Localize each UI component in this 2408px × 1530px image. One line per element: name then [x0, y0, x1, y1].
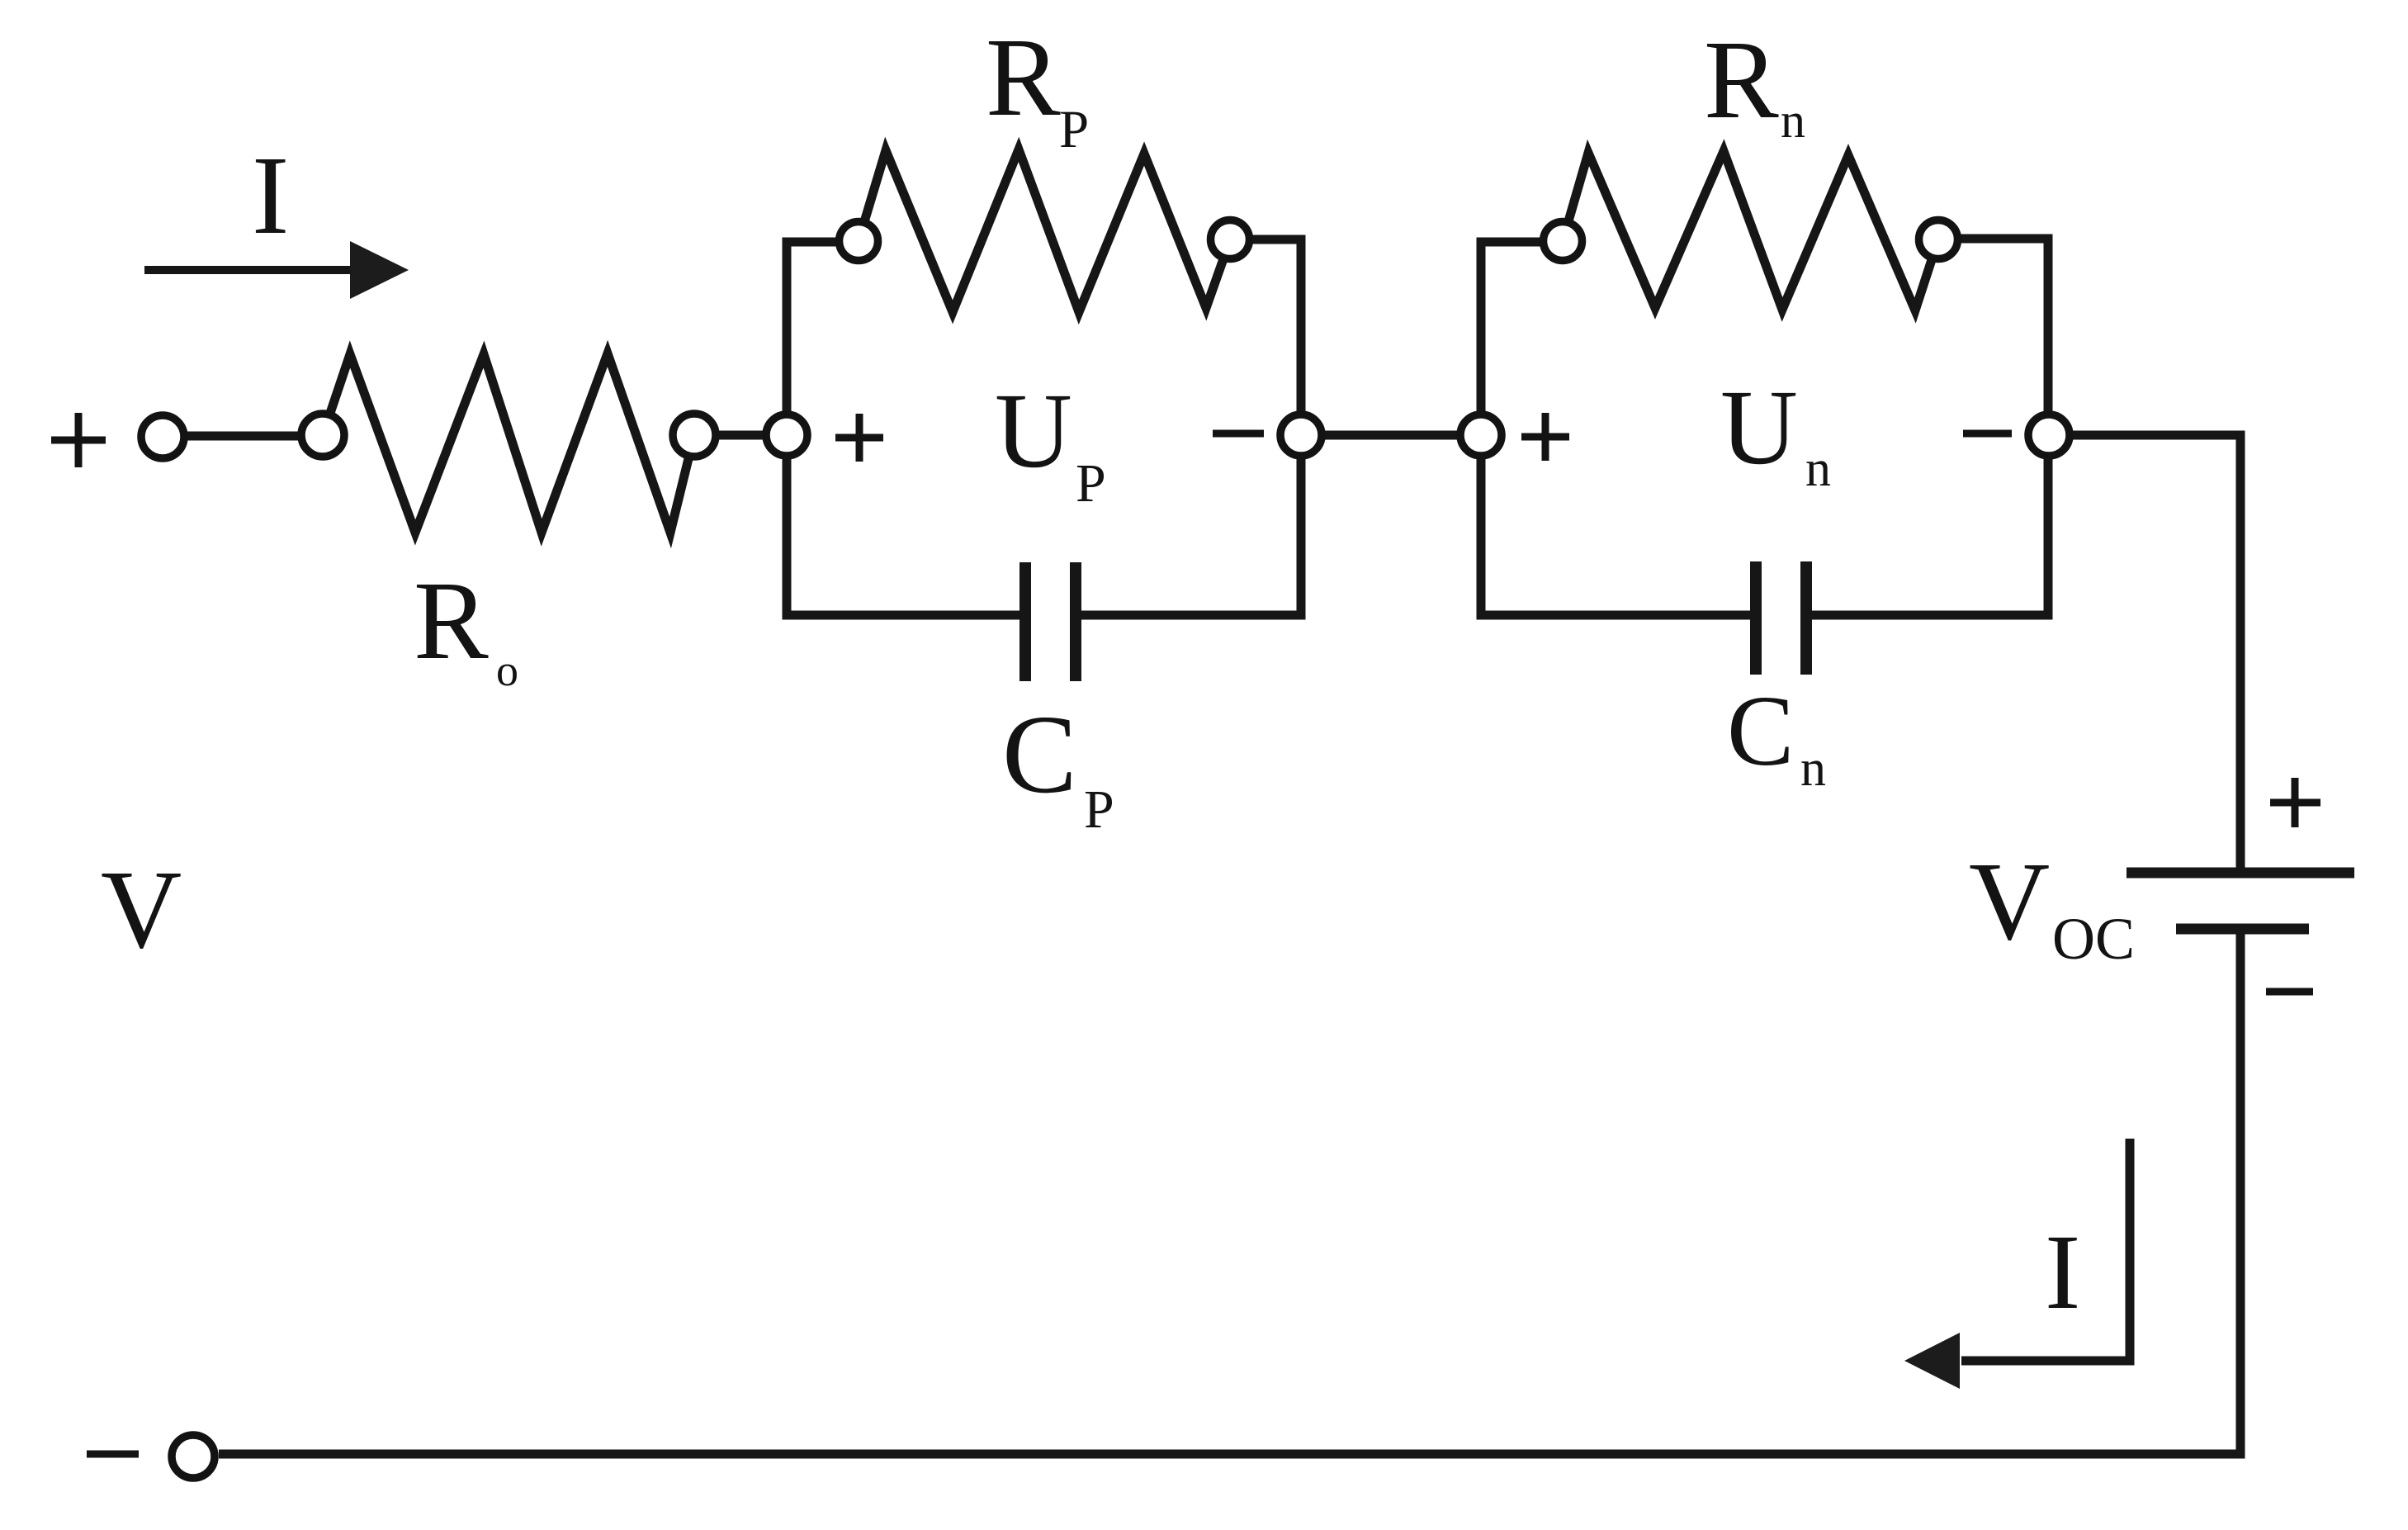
capacitor Cn left plate [1750, 561, 1762, 675]
svg-text:V: V [1969, 840, 2050, 964]
capacitor Cn right plate [1800, 561, 1812, 675]
wire: loop1 bottom-right [1076, 611, 1301, 616]
resistor Rp [859, 149, 1230, 312]
wire: loop2 right vertical [2044, 234, 2053, 616]
wire: loop2 top-right stub [1938, 234, 2053, 244]
wire: loop1 bottom-left [787, 611, 1025, 616]
svg-text:OC: OC [2052, 906, 2135, 972]
node: Rn right pin [1919, 220, 1958, 259]
minus sign: Voc [2266, 988, 2313, 996]
svg-text:n: n [1805, 441, 1831, 497]
svg-text:P: P [1059, 100, 1089, 159]
battery Voc positive plate [2127, 868, 2354, 879]
svg-text:U: U [995, 372, 1072, 490]
svg-text:V: V [101, 848, 182, 972]
plus sign: Voc [2270, 778, 2320, 827]
resistor Rn [1563, 151, 1938, 310]
wire: loop2 bottom-left [1481, 611, 1756, 616]
node: Rp left pin [840, 222, 878, 261]
svg-text:I: I [252, 134, 289, 258]
wire: node D to battery top [2048, 435, 2240, 868]
svg-text:C: C [1727, 675, 1794, 787]
svg-text:R: R [414, 559, 489, 683]
wire: loop2 top-left stub [1477, 238, 1564, 247]
node: Rp right pin [1211, 220, 1250, 259]
node: Rn left pin [1544, 222, 1582, 261]
wire: loop2 left vertical [1477, 238, 1486, 616]
node B [1280, 414, 1322, 456]
node C [1460, 414, 1502, 456]
svg-text:n: n [1800, 741, 1826, 797]
svg-text:U: U [1720, 368, 1798, 487]
current arrow I (top-left) [144, 241, 409, 299]
wire: battery to bottom rail [219, 929, 2240, 1454]
node: Ro left pin [301, 414, 344, 457]
node A [766, 414, 807, 456]
plus sign: V terminal [51, 413, 106, 467]
svg-text:o: o [496, 646, 518, 695]
svg-text:C: C [1002, 693, 1077, 817]
polarity marks drawn as strokes [51, 413, 2320, 1454]
wire: loop1 top-right stub [1230, 235, 1306, 244]
terminal - (open circle) [172, 1435, 215, 1478]
node circles [141, 220, 2070, 1479]
wire: left terminal to Ro [163, 432, 323, 441]
capacitor Cp left plate [1019, 562, 1031, 681]
plus sign: Up [835, 414, 883, 462]
svg-text:R: R [1704, 18, 1779, 142]
resistor Ro [323, 353, 694, 533]
battery Voc negative plate [2176, 924, 2309, 935]
wire: loop1 top-left stub [783, 238, 859, 247]
node D [2028, 414, 2070, 456]
wire: loop2 bottom-right [1806, 611, 2048, 616]
svg-text:I: I [2045, 1213, 2080, 1332]
minus sign: V terminal [87, 1451, 139, 1458]
current arrow I (bottom-right) [1904, 1139, 2130, 1389]
node: Ro right pin [673, 414, 716, 457]
wire: loop1 left vertical [783, 238, 792, 616]
svg-text:n: n [1781, 93, 1805, 148]
svg-text:P: P [1076, 453, 1106, 514]
minus sign: Up [1213, 430, 1264, 438]
capacitor Cp right plate [1070, 562, 1081, 681]
terminal + (open circle) [141, 415, 184, 458]
svg-text:R: R [986, 16, 1061, 140]
wire: Ro to node A [694, 431, 787, 440]
minus sign: Un [1963, 430, 2012, 438]
plus sign: Un [1521, 413, 1569, 461]
wire: node B to node C [1301, 431, 1481, 440]
wire: loop1 right vertical [1297, 235, 1306, 616]
svg-text:P: P [1084, 779, 1114, 840]
